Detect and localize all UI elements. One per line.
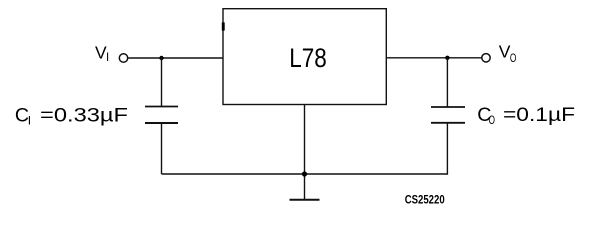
junction ground node <box>302 171 307 176</box>
svg-text:=0.1µF: =0.1µF <box>503 104 575 126</box>
svg-text:I: I <box>28 114 31 128</box>
wire regulator output to terminal <box>387 57 483 59</box>
junction input node <box>159 56 163 60</box>
capacitor CO <box>431 107 465 123</box>
ground <box>290 199 320 201</box>
capacitor CI <box>145 107 178 124</box>
wire regulator ground pin down <box>304 105 306 200</box>
pin 1 mark on regulator left edge <box>222 22 225 30</box>
node VI label <box>95 42 109 64</box>
value label CO = 0.1uF <box>477 104 575 127</box>
input terminal VI <box>119 54 127 62</box>
wire input terminal to regulator <box>128 57 223 59</box>
node VO label <box>499 41 517 65</box>
svg-text:V: V <box>499 41 511 61</box>
value label CI = 0.33uF <box>15 104 128 127</box>
svg-text:=0.33µF: =0.33µF <box>40 104 128 126</box>
svg-text:O: O <box>489 113 496 127</box>
wire CI down to bottom rail <box>161 123 163 174</box>
svg-text:L78: L78 <box>289 43 327 73</box>
wire input node down to CI <box>161 58 163 106</box>
output terminal VO <box>482 54 490 62</box>
svg-text:O: O <box>510 51 517 65</box>
regulator U1 box <box>223 9 386 105</box>
wire CO down to bottom rail <box>446 123 448 175</box>
junction output node <box>445 56 449 60</box>
figure code CS25220 <box>405 192 445 206</box>
wire output node down to CO <box>446 58 448 107</box>
svg-text:I: I <box>106 52 109 64</box>
wire bottom ground rail <box>162 173 448 175</box>
regulator U1 value label L78 <box>289 43 327 73</box>
svg-text:CS25220: CS25220 <box>405 192 445 206</box>
